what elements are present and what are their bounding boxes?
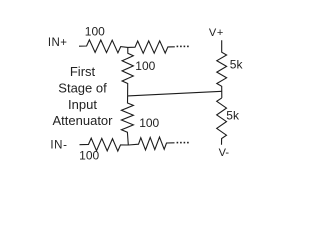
svg-text:V+: V+ [209, 27, 224, 39]
svg-text:Attenuator: Attenuator [53, 113, 114, 128]
svg-text:Input: Input [68, 97, 97, 112]
svg-text:100: 100 [79, 149, 99, 163]
svg-text:100: 100 [139, 116, 159, 130]
svg-text:5k: 5k [226, 108, 240, 122]
svg-text:Stage of: Stage of [58, 81, 107, 96]
svg-text:100: 100 [135, 59, 155, 73]
svg-text:IN+: IN+ [48, 37, 67, 49]
svg-text:5k: 5k [230, 57, 244, 71]
svg-text:V-: V- [219, 147, 230, 159]
svg-text:First: First [70, 64, 96, 79]
svg-text:IN-: IN- [50, 140, 67, 152]
svg-text:100: 100 [85, 25, 105, 39]
